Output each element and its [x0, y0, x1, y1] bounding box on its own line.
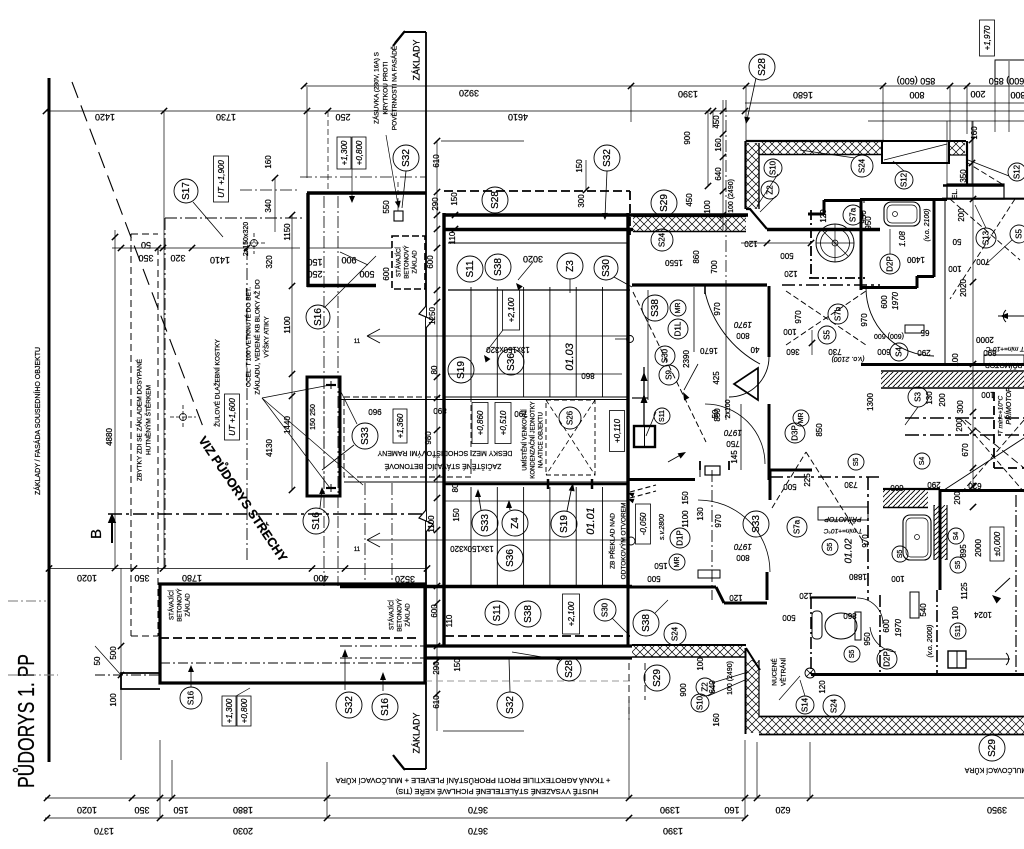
svg-text:1390: 1390 [678, 89, 698, 99]
svg-text:730: 730 [844, 480, 858, 489]
svg-text:KONDENZAČNÍ JEDNOTKY: KONDENZAČNÍ JEDNOTKY [530, 401, 537, 478]
lower flight treads [470, 487, 472, 586]
svg-text:S30: S30 [600, 602, 609, 617]
svg-text:120: 120 [818, 680, 827, 694]
svg-text:4130: 4130 [265, 439, 274, 457]
svg-text:150: 150 [450, 192, 459, 206]
svg-text:S10: S10 [768, 160, 777, 175]
svg-text:895: 895 [959, 544, 968, 558]
top dimension line row B (y=111) [46, 110, 1024, 112]
svg-text:S33: S33 [360, 427, 371, 445]
svg-text:S17: S17 [181, 182, 192, 200]
svg-text:S28: S28 [564, 660, 575, 678]
lower corridor walls [425, 644, 632, 647]
svg-text:750: 750 [726, 439, 740, 448]
label circle S10 [764, 159, 782, 177]
svg-text:600: 600 [426, 255, 435, 269]
svg-text:1730: 1730 [216, 112, 236, 122]
svg-text:2030: 2030 [233, 826, 253, 836]
svg-text:2000: 2000 [974, 539, 983, 557]
benchmark cross 2 [180, 414, 187, 421]
label circle S3 [908, 387, 928, 407]
svg-text:150: 150 [575, 159, 584, 173]
svg-text:1970: 1970 [734, 320, 752, 329]
diag hatch small piece [883, 490, 928, 507]
right corner walls [966, 141, 968, 186]
bathtub top [884, 202, 920, 226]
label circle S24 [664, 623, 686, 645]
arrow symbol right [998, 315, 1024, 317]
svg-text:640: 640 [714, 167, 723, 181]
step from strip to corridor wall [746, 209, 767, 229]
boxed label UT +1,600 [225, 394, 240, 440]
svg-text:ZÁKLAD: ZÁKLAD [185, 593, 192, 617]
svg-text:50: 50 [711, 409, 720, 418]
label circle S12 [895, 171, 913, 189]
svg-text:BETONOVÝ: BETONOVÝ [397, 598, 404, 631]
bottom dim row 1 [45, 797, 1024, 799]
svg-text:2020: 2020 [959, 279, 968, 297]
dash-dot excavation rectangle [164, 218, 166, 568]
svg-text:620: 620 [968, 481, 982, 490]
svg-text:S26: S26 [565, 410, 574, 425]
bottom dim row 2 [45, 817, 745, 819]
svg-text:250: 250 [335, 112, 350, 122]
svg-text:1970: 1970 [734, 542, 752, 551]
svg-text:300: 300 [577, 194, 586, 208]
svg-text:S33: S33 [751, 515, 762, 533]
label circle S11 [654, 408, 670, 424]
svg-text:ZBYTKY ZDI SE ZÁKLADEM DOSYPAN: ZBYTKY ZDI SE ZÁKLADEM DOSYPANÉ [135, 358, 144, 481]
label circle S24 [823, 695, 845, 717]
svg-text:S11: S11 [659, 410, 666, 422]
label circle S38 [485, 254, 511, 280]
svg-text:160: 160 [712, 713, 721, 727]
label circle S38 [633, 610, 659, 636]
svg-text:MULČOVACÍ KŮRA: MULČOVACÍ KŮRA [964, 766, 1024, 775]
svg-text:50: 50 [141, 240, 151, 250]
svg-text:320: 320 [170, 253, 185, 263]
svg-text:1780: 1780 [182, 573, 202, 583]
svg-text:D1L: D1L [673, 321, 682, 336]
svg-text:1370: 1370 [94, 826, 114, 836]
walls around D3P door [699, 470, 701, 477]
triangle marker [734, 368, 758, 400]
label circle S36 [498, 349, 524, 375]
svg-text:S5: S5 [827, 543, 834, 552]
WC door arc [857, 598, 883, 624]
svg-text:S4: S4 [919, 457, 926, 466]
svg-text:150: 150 [452, 508, 461, 522]
svg-text:110: 110 [448, 231, 457, 244]
column square [634, 426, 655, 447]
svg-text:STÁVAJÍCÍ: STÁVAJÍCÍ [389, 600, 396, 630]
svg-text:(v.o. 2100): (v.o. 2100) [832, 355, 865, 362]
label circle S5 [848, 454, 864, 470]
svg-text:120: 120 [744, 239, 758, 248]
svg-text:S32: S32 [344, 696, 355, 714]
dashed diagonals 01.02 [772, 452, 806, 508]
svg-text:PŘÍMOTOP: PŘÍMOTOP [824, 515, 862, 524]
upper-left room walls [307, 191, 426, 194]
heavy dashdot room borders [770, 476, 880, 478]
svg-text:150: 150 [453, 658, 462, 672]
label circle D1P [670, 528, 690, 548]
EL room [947, 184, 1004, 199]
landing dashed rect [344, 397, 471, 477]
label circle Z2 [761, 181, 779, 199]
stair block outer walls [442, 213, 445, 646]
svg-text:1970: 1970 [891, 292, 900, 310]
top right vertical dim chain x=723 [722, 100, 724, 230]
svg-text:S28: S28 [757, 58, 768, 76]
svg-text:VÝŠKY ATIKY: VÝŠKY ATIKY [262, 316, 271, 358]
washer room walls [810, 210, 812, 278]
label circle S36 [497, 545, 523, 571]
S38 corridor room walls [632, 283, 767, 286]
dashed diagonals small room [633, 292, 706, 442]
svg-text:200: 200 [970, 89, 985, 99]
svg-text:100: 100 [783, 327, 797, 336]
svg-text:01.02: 01.02 [844, 538, 855, 563]
svg-text:(v.o. 2000): (v.o. 2000) [927, 625, 934, 658]
svg-text:400: 400 [313, 573, 328, 583]
boxed label +2,100 [503, 290, 520, 330]
svg-text:700: 700 [710, 260, 719, 274]
svg-text:800: 800 [1010, 90, 1024, 100]
door arc bottom-right [870, 627, 896, 652]
svg-text:100: 100 [951, 353, 960, 367]
svg-text:160: 160 [714, 138, 723, 152]
svg-text:600: 600 [890, 483, 904, 492]
svg-text:800: 800 [736, 331, 750, 340]
ZAKLADY corner flag bottom [395, 758, 426, 769]
svg-text:S7a: S7a [848, 207, 857, 222]
svg-text:1670: 1670 [700, 346, 718, 355]
svg-text:S36: S36 [506, 353, 517, 371]
svg-text:1680: 1680 [793, 90, 813, 100]
svg-text:BETONOVÝ: BETONOVÝ [177, 588, 184, 621]
S12 box room top right [882, 141, 949, 163]
boxed label +0,800 [352, 137, 366, 169]
gray dashed line corridor [425, 680, 630, 682]
svg-text:50: 50 [952, 237, 961, 246]
long thin verticals [163, 111, 165, 568]
tub bottom right [903, 515, 931, 560]
svg-text:S3: S3 [913, 392, 922, 402]
svg-text:950: 950 [863, 632, 872, 646]
svg-text:350: 350 [959, 169, 968, 183]
dash-dot axes through stairs [323, 196, 325, 586]
label circle S32 [336, 692, 362, 718]
hatch band bottom mid (632-746) [632, 646, 746, 657]
svg-text:+1,360: +1,360 [396, 413, 405, 438]
svg-text:+2,100: +2,100 [507, 297, 516, 322]
label circle S16 [180, 687, 202, 709]
svg-text:225: 225 [803, 473, 812, 487]
svg-text:600: 600 [882, 619, 891, 633]
svg-text:2000: 2000 [976, 335, 994, 344]
svg-text:D2P: D2P [885, 256, 894, 272]
label circle S33 [352, 423, 378, 449]
svg-text:150: 150 [307, 257, 322, 267]
corridor wall continues right [767, 228, 880, 231]
svg-text:S5: S5 [822, 330, 831, 340]
label circle S11 [457, 256, 483, 282]
left margin gray axis dashes [8, 600, 46, 602]
top dimension line row A (y=86) [304, 85, 1024, 87]
svg-text:970: 970 [794, 310, 803, 324]
svg-text:850 (600): 850 (600) [897, 76, 936, 86]
svg-text:150: 150 [173, 805, 188, 815]
small circle symbol [627, 336, 634, 343]
svg-text:MR: MR [674, 557, 681, 568]
svg-text:1024: 1024 [974, 610, 992, 619]
diag hatch strip right of tub [934, 505, 947, 560]
label circle S7b [828, 304, 848, 324]
svg-text:100 (2490): 100 (2490) [728, 179, 735, 213]
svg-text:S33: S33 [480, 514, 491, 532]
svg-text:POVĚTRNOSTI NA FASÁDĚ: POVĚTRNOSTI NA FASÁDĚ [390, 45, 399, 130]
svg-text:200: 200 [955, 418, 964, 432]
svg-text:160: 160 [264, 155, 273, 169]
svg-text:S11: S11 [955, 625, 962, 637]
svg-text:3670: 3670 [468, 805, 488, 815]
washer symbol [816, 224, 854, 262]
left dim chain x=115 (4880) [114, 230, 116, 568]
svg-text:STÁVAJÍCÍ: STÁVAJÍCÍ [396, 247, 403, 277]
svg-text:320: 320 [265, 255, 274, 269]
label circle S38 [642, 295, 668, 321]
label circle S10 [691, 694, 709, 712]
svg-text:S32: S32 [401, 149, 412, 167]
svg-text:NA ATICE OBJEKTU: NA ATICE OBJEKTU [539, 412, 545, 468]
svg-text:250: 250 [310, 404, 317, 416]
svg-text:S29: S29 [987, 739, 998, 757]
label circle S29 [979, 735, 1005, 761]
svg-text:800: 800 [909, 90, 924, 100]
bottom row riser lines [159, 740, 161, 818]
label circle S30 [655, 346, 675, 366]
horizontal hatch band top right [759, 142, 882, 154]
svg-text:PŘÍMOTOP: PŘÍMOTOP [985, 361, 1023, 370]
svg-text:150: 150 [681, 491, 690, 505]
small hatch right [950, 142, 965, 155]
ZAKLADY corner flag top [425, 32, 427, 769]
label circle S30 [594, 599, 616, 621]
svg-text:290: 290 [431, 197, 440, 211]
svg-text:ZB PŘEKLAD NAD: ZB PŘEKLAD NAD [608, 513, 617, 569]
strip lines right of stairs [647, 290, 649, 400]
bold dashed stavajici zaklad box [392, 236, 425, 289]
corridor above stairs: bottom line [448, 289, 630, 291]
svg-text:ODTOKOVÝM OTVOREM: ODTOKOVÝM OTVOREM [619, 503, 628, 580]
wall + door to 01.02 [698, 500, 770, 572]
top right small rect [995, 60, 1024, 78]
svg-text:3670: 3670 [468, 826, 488, 836]
svg-text:S19: S19 [456, 361, 467, 379]
central dim chain x=437 [436, 141, 438, 731]
svg-text:600: 600 [382, 267, 391, 281]
label circle S30 [594, 256, 618, 280]
label circle S28 [482, 187, 508, 213]
wall below corridor (y=345) [632, 397, 648, 399]
svg-text:MR: MR [675, 303, 682, 314]
svg-text:S13: S13 [981, 230, 990, 245]
S33/Z4/S36/S19 lower circles [478, 492, 481, 510]
benchmark cross 1 [251, 240, 258, 247]
label circle S5 [1010, 225, 1024, 243]
svg-text:VĚTRÁNÍ: VĚTRÁNÍ [779, 658, 788, 686]
boxed label +1,300 [337, 137, 351, 169]
svg-text:500: 500 [780, 251, 794, 260]
fan symbol [805, 668, 815, 678]
svg-text:800: 800 [736, 553, 750, 562]
svg-text:s.v.2800: s.v.2800 [659, 514, 666, 540]
svg-text:130: 130 [696, 507, 705, 521]
upper flight treads [470, 287, 472, 397]
svg-text:250: 250 [307, 269, 322, 279]
left chain x=292 [291, 215, 293, 490]
dashed diagonals top-right of this area [965, 420, 1024, 468]
svg-text:200: 200 [938, 393, 947, 407]
label circle MR [670, 300, 686, 316]
svg-text:100: 100 [703, 200, 712, 214]
svg-text:B: B [88, 529, 105, 539]
svg-text:970: 970 [860, 313, 869, 327]
svg-text:100: 100 [109, 693, 118, 707]
svg-text:S29: S29 [652, 669, 663, 687]
svg-text:200: 200 [953, 491, 962, 505]
svg-text:±0,000: ±0,000 [993, 531, 1002, 556]
svg-text:1300: 1300 [866, 393, 875, 411]
svg-text:D1P: D1P [675, 530, 684, 546]
door arc bathroom [866, 288, 934, 356]
svg-text:100: 100 [948, 264, 962, 273]
svg-text:+0,800: +0,800 [355, 140, 364, 165]
top corridor walls [444, 213, 748, 216]
svg-text:1.08: 1.08 [898, 231, 907, 247]
svg-text:300: 300 [956, 400, 965, 414]
svg-text:350: 350 [138, 253, 153, 263]
svg-text:40: 40 [750, 345, 759, 354]
S26 dashed unit box [546, 400, 595, 475]
dashed X bottom right top room [962, 420, 1024, 492]
label circle S19 [551, 511, 577, 537]
svg-text:D3P: D3P [790, 425, 799, 441]
svg-text:S12: S12 [1012, 164, 1021, 179]
label circle S5 [950, 557, 966, 573]
label circle S12 [1008, 163, 1024, 181]
svg-text:1970: 1970 [724, 428, 742, 437]
label circle MR [669, 554, 685, 570]
svg-text:3950: 3950 [987, 805, 1007, 815]
svg-text:900: 900 [683, 131, 692, 145]
svg-text:OCEL 'T'100 VETKNUTÉ DO BET.: OCEL 'T'100 VETKNUTÉ DO BET. [244, 287, 253, 387]
svg-text:4610: 4610 [508, 112, 528, 122]
svg-text:UT +1,900: UT +1,900 [217, 160, 226, 198]
svg-text:T min=+10°C: T min=+10°C [986, 345, 1024, 353]
svg-text:UMÍSTĚNÍ VENKOVNÍ: UMÍSTĚNÍ VENKOVNÍ [521, 409, 529, 471]
boxed label +0,860 [472, 403, 488, 444]
svg-text:1550: 1550 [665, 258, 683, 267]
label circle S4 [890, 343, 908, 361]
svg-text:S5: S5 [1014, 229, 1023, 239]
svg-text:S28: S28 [490, 191, 501, 209]
svg-text:1390: 1390 [663, 826, 683, 836]
svg-text:350: 350 [134, 573, 149, 583]
svg-text:T min=+10°C: T min=+10°C [824, 527, 863, 535]
dim 610 head line [441, 140, 524, 142]
svg-text:S12: S12 [899, 172, 908, 187]
svg-text:DESKY MEZI SCHODIŠŤOVÝMI RAMEN: DESKY MEZI SCHODIŠŤOVÝMI RAMENY [377, 449, 512, 458]
label circle S16 [306, 305, 330, 329]
left chain x=121 [120, 568, 122, 760]
svg-text:(600) 600: (600) 600 [874, 332, 904, 339]
label circle S28 [749, 54, 775, 80]
svg-text:890: 890 [433, 406, 447, 415]
svg-text:Z3: Z3 [565, 260, 576, 272]
svg-text:MR: MR [798, 413, 805, 424]
svg-text:120: 120 [784, 269, 798, 278]
svg-text:S38: S38 [650, 299, 661, 317]
label circle S16 [372, 694, 398, 720]
label circle S5 [844, 646, 860, 662]
dashed verticals below [628, 663, 630, 720]
svg-text:1400: 1400 [907, 255, 925, 264]
svg-text:145: 145 [730, 450, 739, 464]
vertical hatch band bottom [746, 660, 759, 733]
toilet [825, 613, 857, 639]
svg-text:150: 150 [310, 418, 317, 430]
svg-text:540: 540 [919, 603, 928, 617]
top-right extra dim lines [745, 102, 1024, 104]
vertical hatch strip top [746, 143, 759, 209]
short line under 610 [443, 730, 524, 732]
S13 room dashed X [950, 199, 1020, 260]
svg-text:700: 700 [976, 257, 990, 266]
svg-text:S10: S10 [695, 695, 704, 710]
dashed excavation rectangle [130, 234, 132, 636]
svg-text:BETONOVÝ: BETONOVÝ [404, 245, 411, 278]
label circle S32 [594, 145, 620, 171]
bottom-left room thick walls [160, 584, 425, 683]
svg-text:360: 360 [786, 347, 800, 356]
svg-text:100: 100 [696, 657, 705, 671]
svg-text:S38: S38 [493, 258, 504, 276]
label circle S29 [651, 190, 677, 216]
arrows up to wall [344, 652, 346, 690]
svg-text:120: 120 [729, 593, 743, 602]
label circle S38 [515, 601, 541, 627]
svg-text:160: 160 [724, 805, 739, 815]
small basin [812, 611, 822, 639]
svg-text:425: 425 [712, 371, 721, 385]
svg-text:S38: S38 [523, 605, 534, 623]
svg-text:PŮDORYS 1. PP: PŮDORYS 1. PP [11, 654, 39, 788]
label circle S11 [950, 623, 966, 639]
svg-text:100: 100 [981, 390, 995, 399]
upper flight walk line + arrow [368, 335, 628, 337]
svg-text:600: 600 [877, 347, 891, 356]
notch bottom-left [121, 673, 160, 689]
label circle S19 [448, 357, 474, 383]
landing boundary lines [340, 399, 628, 401]
svg-text:S16: S16 [311, 512, 322, 530]
svg-text:670: 670 [961, 443, 970, 457]
svg-text:1150: 1150 [283, 223, 292, 241]
svg-text:1880: 1880 [233, 805, 253, 815]
